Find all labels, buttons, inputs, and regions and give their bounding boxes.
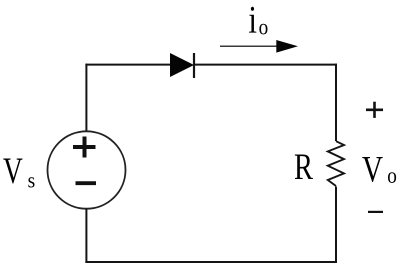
wire left upper segment — [85, 64, 87, 132]
svg-text:V: V — [362, 149, 383, 190]
resistor R — [328, 141, 344, 186]
svg-text:s: s — [28, 167, 36, 192]
svg-text:V: V — [3, 150, 23, 191]
polarity minus of Vo — [368, 211, 383, 213]
wire right lower segment — [335, 187, 337, 264]
svg-text:o: o — [387, 163, 397, 188]
svg-text:i: i — [248, 0, 257, 41]
svg-text:o: o — [259, 15, 269, 40]
wire bottom segment — [85, 261, 337, 263]
label Vs — [3, 150, 35, 192]
label io — [248, 0, 268, 41]
voltage source Vs — [48, 131, 126, 208]
polarity plus of Vo — [366, 102, 383, 118]
current arrow io — [220, 40, 298, 53]
wire right upper segment — [335, 64, 337, 141]
wire left lower segment — [85, 209, 87, 263]
label Vo — [362, 149, 397, 190]
wire top right segment — [194, 64, 337, 66]
wire top left segment — [85, 64, 172, 66]
svg-text:R: R — [294, 146, 313, 187]
diode — [170, 53, 194, 78]
